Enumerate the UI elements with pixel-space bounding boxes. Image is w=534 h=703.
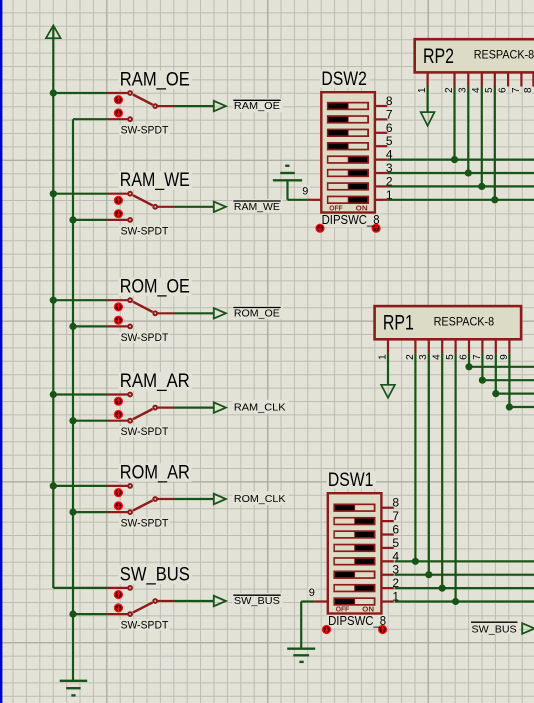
svg-text:SW_BUS: SW_BUS <box>120 564 190 585</box>
svg-text:DSW1: DSW1 <box>328 470 374 491</box>
svg-text:RAM_WE: RAM_WE <box>234 202 280 213</box>
svg-text:5: 5 <box>392 536 399 550</box>
svg-text:4: 4 <box>471 87 482 93</box>
svg-text:6: 6 <box>386 121 393 135</box>
svg-text:SW_BUS: SW_BUS <box>234 596 280 607</box>
svg-text:3: 3 <box>458 87 469 93</box>
svg-text:RP1: RP1 <box>383 311 414 335</box>
svg-text:ON: ON <box>362 605 374 614</box>
svg-text:6: 6 <box>392 523 399 537</box>
svg-text:8: 8 <box>523 87 534 93</box>
svg-text:6: 6 <box>458 354 469 360</box>
svg-text:ROM_OE: ROM_OE <box>120 277 190 298</box>
svg-text:1: 1 <box>417 87 428 93</box>
svg-text:8: 8 <box>386 94 393 108</box>
svg-text:RAM_AR: RAM_AR <box>120 371 190 392</box>
svg-text:8: 8 <box>485 354 496 360</box>
svg-text:7: 7 <box>511 87 522 93</box>
svg-text:SW_BUS: SW_BUS <box>472 624 517 635</box>
svg-text:RAM_WE: RAM_WE <box>120 170 190 191</box>
svg-text:SW-SPDT: SW-SPDT <box>121 125 169 137</box>
svg-text:1: 1 <box>377 354 388 360</box>
svg-text:DIPSWC_8: DIPSWC_8 <box>322 213 380 227</box>
svg-text:SW-SPDT: SW-SPDT <box>121 225 169 237</box>
svg-text:ON: ON <box>356 204 368 213</box>
svg-text:SW-SPDT: SW-SPDT <box>121 620 169 632</box>
svg-text:RAM_CLK: RAM_CLK <box>234 403 286 414</box>
svg-text:7: 7 <box>472 354 483 360</box>
svg-text:ROM_CLK: ROM_CLK <box>234 494 286 505</box>
svg-text:SW-SPDT: SW-SPDT <box>121 332 169 344</box>
svg-text:5: 5 <box>484 87 495 93</box>
svg-text:8: 8 <box>392 496 399 510</box>
svg-text:OFF: OFF <box>336 605 350 614</box>
svg-text:RAM_OE: RAM_OE <box>234 101 280 112</box>
svg-text:9: 9 <box>302 185 308 197</box>
svg-text:RAM_OE: RAM_OE <box>120 69 190 90</box>
svg-text:RESPACK-8: RESPACK-8 <box>434 316 495 328</box>
svg-text:7: 7 <box>392 509 399 523</box>
svg-text:DIPSWC_8: DIPSWC_8 <box>328 614 386 628</box>
svg-text:5: 5 <box>386 134 393 148</box>
svg-text:SW-SPDT: SW-SPDT <box>121 426 169 438</box>
svg-text:2: 2 <box>405 354 416 360</box>
svg-text:7: 7 <box>386 107 393 121</box>
svg-text:3: 3 <box>418 354 429 360</box>
svg-text:6: 6 <box>498 87 509 93</box>
svg-text:RESPACK-8: RESPACK-8 <box>474 50 534 62</box>
svg-text:DSW2: DSW2 <box>321 69 367 90</box>
svg-text:5: 5 <box>445 354 456 360</box>
svg-text:4: 4 <box>432 354 443 360</box>
svg-text:SW-SPDT: SW-SPDT <box>121 518 169 530</box>
svg-text:ROM_OE: ROM_OE <box>234 308 280 319</box>
svg-text:ROM_AR: ROM_AR <box>120 462 190 483</box>
svg-text:9: 9 <box>499 354 510 360</box>
svg-text:2: 2 <box>444 87 455 93</box>
svg-text:RP2: RP2 <box>423 44 454 68</box>
svg-text:OFF: OFF <box>329 204 343 213</box>
svg-text:9: 9 <box>309 587 315 599</box>
